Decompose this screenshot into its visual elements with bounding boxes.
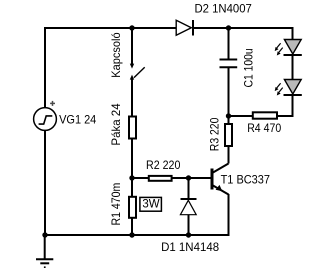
svg-text:R4 470: R4 470 (247, 121, 281, 135)
wire: R1 top lead (131, 178, 133, 197)
junction: C1 / R3 / R4 node (226, 113, 231, 118)
wire: R1 bottom lead (131, 218, 133, 236)
transistor T1 emitter lead with arrow (213, 185, 229, 195)
resistor R3 (225, 124, 232, 146)
wire: D1 bottom lead (188, 215, 190, 236)
svg-text:Páka 24: Páka 24 (109, 103, 123, 145)
wire: LED1 cathode to LED2 anode (292, 55, 294, 80)
LED D3 (top) (284, 40, 302, 56)
wire: emitter down to ground rail (228, 194, 230, 235)
wire: switch branch upper lead (131, 28, 133, 64)
svg-text:C1 100u: C1 100u (241, 48, 255, 87)
svg-text:Kapcsoló: Kapcsoló (109, 32, 123, 78)
wire: C1 bottom lead to R3/R4 node (228, 67, 230, 117)
wire: node to R2 left (132, 177, 149, 179)
svg-text:T1 BC337: T1 BC337 (221, 173, 271, 187)
LED D3 light arrows (275, 43, 283, 55)
junction: ground rail / left rail / earth (42, 232, 47, 237)
resistor R1 (129, 197, 136, 218)
svg-text:D2 1N4007: D2 1N4007 (195, 2, 253, 16)
resistor R2 (149, 176, 172, 181)
wire: bottom ground rail (44, 234, 230, 236)
wire: LED2 cathode down to R4 level (292, 95, 294, 117)
junction: top rail / switch branch (129, 25, 134, 30)
wire: D1 top lead (188, 178, 190, 200)
LED D4 (bottom) (284, 80, 302, 96)
svg-text:VG1 24: VG1 24 (59, 113, 96, 127)
ground symbol (36, 235, 53, 267)
wire: R2 right to base node (173, 177, 190, 179)
wire: base wire to T1 (189, 177, 212, 179)
wire: node to R4 left (229, 115, 254, 117)
wire: R3 bottom to collector bend (228, 147, 230, 164)
resistor load Páka 24 (heater) (129, 117, 136, 139)
svg-text:R1 470m: R1 470m (109, 183, 123, 226)
transistor T1 base bar (211, 169, 214, 190)
voltage source VG1 (34, 108, 57, 131)
wire: left rail lower (VG1 - terminal to ground rail) (44, 130, 46, 236)
wire: top rail from VG1 to D2 anode (44, 27, 176, 29)
svg-text:R3 220: R3 220 (207, 117, 221, 151)
wire: left rail upper (VG1 + terminal) (44, 27, 46, 108)
polarity plus sign of VG1 (50, 101, 55, 106)
capacitor C1 (220, 60, 238, 68)
junction: Páka / R2 / R1 node (129, 175, 134, 180)
wire: right rail top to LED1 anode (292, 28, 294, 40)
junction: ground rail / R1 (129, 232, 134, 237)
LED D4 light arrows (275, 83, 283, 95)
junction: ground rail / D1 (186, 232, 191, 237)
wire: node to R3 top (228, 116, 230, 124)
svg-text:D1 1N4148: D1 1N4148 (161, 240, 219, 254)
wire: R4 right to LED cathode rail (278, 115, 294, 117)
wire: C1 top lead (228, 28, 230, 59)
junction: top rail / C1 branch (226, 25, 231, 30)
transistor T1 collector lead (213, 164, 229, 173)
svg-text:R2 220: R2 220 (146, 158, 181, 172)
wire: Páka bottom to base node junction (131, 140, 133, 180)
diode D2 (176, 20, 193, 36)
wire: top rail from D2 cathode to C1/LED corner (193, 27, 294, 29)
power rating label 3W (140, 197, 162, 212)
wire: switch branch lower lead to Páka (131, 80, 133, 117)
switch SW1 Kapcsoló (130, 64, 145, 80)
svg-text:3W: 3W (142, 197, 160, 211)
junction: R2 / D1 / base wire node (186, 175, 191, 180)
resistor R4 (253, 112, 277, 118)
diode D1 (180, 199, 196, 215)
